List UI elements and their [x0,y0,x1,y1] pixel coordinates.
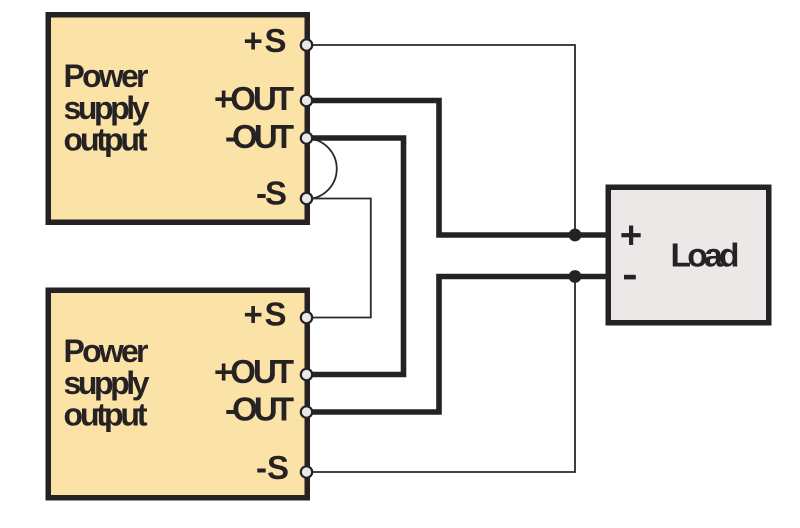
svg-text:+S: +S [244,22,287,59]
terminal +OUT supply2 [301,369,312,380]
svg-text:+OUT: +OUT [214,353,294,390]
junction node + at load [569,229,582,242]
svg-text:+S: +S [244,296,287,333]
terminal -OUT supply2 [301,406,312,417]
svg-text:Power: Power [64,58,149,94]
wire +OUT supply1 to load + (thick) [310,101,606,236]
wire -OUT supply2 to load - (thick) [310,277,606,413]
svg-text:Load: Load [671,238,740,275]
jumper arc -OUT to -S supply1 [307,139,337,200]
label + load terminal [621,226,640,245]
wire series link -OUT supply1 to +OUT supply2 (thick) [310,138,404,375]
junction node - at load [569,270,582,283]
svg-text:-OUT: -OUT [225,118,294,155]
svg-text:-S: -S [256,449,289,486]
terminal +S supply2 [301,312,312,323]
terminal -S supply1 [301,193,312,204]
svg-text:Power: Power [64,333,149,369]
wire +S sense supply1 to load + [310,45,575,233]
terminal -OUT supply1 [301,132,312,143]
label - load terminal [624,275,636,280]
load box [608,187,769,323]
power supply output box 2 [48,290,307,498]
svg-text:+OUT: +OUT [214,80,294,117]
svg-text:-S: -S [256,175,287,212]
wire -S supply2 sense to load - [310,279,575,472]
svg-text:output: output [64,397,148,433]
power supply output box 1 [48,15,307,223]
svg-text:-OUT: -OUT [225,391,294,428]
terminal +OUT supply1 [301,95,312,106]
terminal +S supply1 [301,39,312,50]
svg-text:output: output [64,122,148,158]
wire -S supply1 to +S supply2 sense link [310,199,371,318]
terminal -S supply2 [301,466,312,477]
